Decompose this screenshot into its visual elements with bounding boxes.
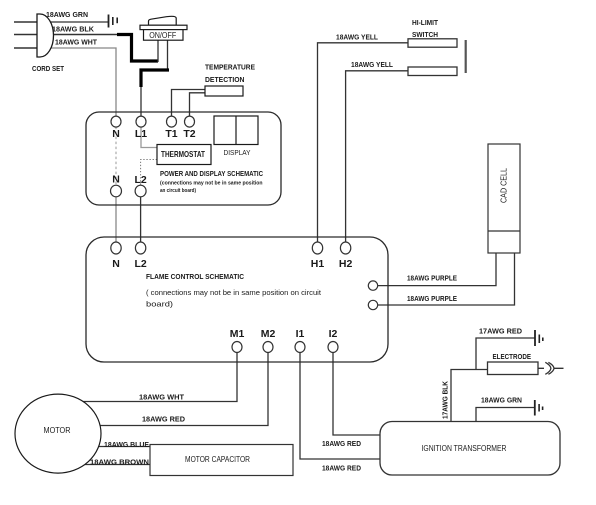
svg-text:IGNITION TRANSFORMER: IGNITION TRANSFORMER	[422, 444, 507, 453]
svg-text:N: N	[112, 128, 120, 140]
svg-text:SWITCH: SWITCH	[412, 30, 438, 39]
svg-text:ON/OFF: ON/OFF	[149, 31, 176, 40]
svg-text:L1: L1	[135, 128, 147, 140]
svg-text:18AWG YELL: 18AWG YELL	[351, 60, 393, 69]
svg-text:HI-LIMIT: HI-LIMIT	[412, 18, 438, 27]
svg-text:18AWG GRN: 18AWG GRN	[46, 10, 88, 19]
svg-text:17AWG BLK: 17AWG BLK	[441, 381, 450, 419]
svg-text:(connections may not be in sa: (connections may not be in same position	[160, 181, 263, 187]
svg-text:N: N	[112, 174, 120, 186]
svg-text:T1: T1	[165, 128, 177, 140]
svg-text:H2: H2	[339, 258, 353, 270]
svg-text:FLAME CONTROL SCHEMATIC: FLAME CONTROL SCHEMATIC	[146, 272, 245, 281]
svg-text:I1: I1	[296, 328, 305, 340]
svg-text:18AWG WHT: 18AWG WHT	[55, 38, 97, 47]
svg-text:I2: I2	[329, 328, 338, 340]
svg-text:M1: M1	[230, 328, 245, 340]
svg-text:H1: H1	[311, 258, 325, 270]
svg-text:18AWG YELL: 18AWG YELL	[336, 33, 378, 42]
svg-text:18AWG PURPLE: 18AWG PURPLE	[407, 274, 457, 283]
svg-text:MOTOR: MOTOR	[44, 426, 71, 435]
svg-text:( connections may not be in sa: ( connections may not be in same positio…	[146, 288, 322, 297]
svg-text:18AWG BLUE: 18AWG BLUE	[104, 440, 149, 449]
svg-text:L2: L2	[134, 258, 146, 270]
svg-text:MOTOR CAPACITOR: MOTOR CAPACITOR	[185, 455, 250, 464]
svg-text:TEMPERATURE: TEMPERATURE	[205, 63, 255, 72]
svg-text:18AWG RED: 18AWG RED	[322, 464, 362, 473]
svg-text:18AWG WHT: 18AWG WHT	[139, 393, 184, 402]
svg-text:18AWG RED: 18AWG RED	[322, 439, 362, 448]
svg-text:18AWG BROWN: 18AWG BROWN	[90, 458, 149, 467]
svg-text:board): board)	[146, 300, 174, 309]
svg-text:an circuit board): an circuit board)	[160, 188, 196, 194]
svg-text:18AWG RED: 18AWG RED	[142, 415, 186, 424]
svg-text:DETECTION: DETECTION	[205, 75, 245, 84]
svg-text:M2: M2	[261, 328, 276, 340]
svg-text:ELECTRODE: ELECTRODE	[493, 352, 532, 361]
svg-text:N: N	[112, 258, 120, 270]
svg-text:17AWG RED: 17AWG RED	[479, 327, 523, 336]
svg-text:THERMOSTAT: THERMOSTAT	[161, 149, 206, 159]
svg-text:18AWG GRN: 18AWG GRN	[481, 396, 522, 405]
svg-text:POWER AND DISPLAY SCHEMATIC: POWER AND DISPLAY SCHEMATIC	[160, 171, 263, 178]
svg-text:DISPLAY: DISPLAY	[224, 148, 251, 157]
svg-text:T2: T2	[183, 128, 195, 140]
svg-text:18AWG BLK: 18AWG BLK	[52, 25, 95, 34]
svg-text:L2: L2	[134, 174, 146, 186]
svg-text:CORD SET: CORD SET	[32, 64, 64, 73]
svg-text:18AWG PURPLE: 18AWG PURPLE	[407, 294, 457, 303]
svg-text:CAD CELL: CAD CELL	[500, 168, 509, 203]
